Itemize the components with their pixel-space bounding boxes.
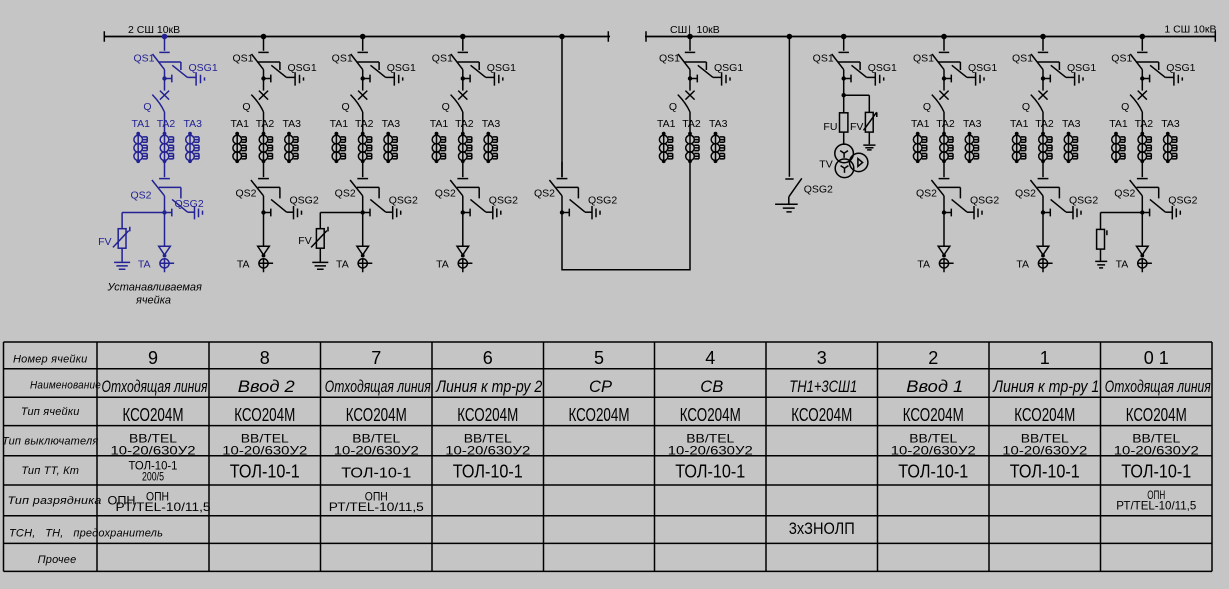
svg-text:QS2: QS2	[130, 190, 151, 202]
svg-text:Прочее: Прочее	[38, 554, 77, 566]
svg-text:3хЗНОЛП: 3хЗНОЛП	[789, 519, 855, 538]
svg-text:КСО204М: КСО204М	[1126, 405, 1187, 425]
wire QSG1 lead to earth	[867, 76, 876, 78]
svg-text:1 СШ 10кВ: 1 СШ 10кВ	[1164, 24, 1216, 36]
svg-text:2: 2	[928, 348, 938, 368]
bay 9 installed cell (blue)	[98, 34, 218, 273]
arrester FV arrow	[864, 112, 877, 130]
svg-text:РТ/TEL-10/11,5: РТ/TEL-10/11,5	[116, 500, 211, 514]
node FV branch dot	[842, 93, 846, 97]
bay 4 SV bus tie breaker	[657, 34, 743, 163]
svg-text:10-20/630У2: 10-20/630У2	[891, 444, 976, 458]
svg-text:КСО204М: КСО204М	[791, 405, 852, 425]
table vertical grid lines	[4, 342, 1213, 571]
svg-text:10-20/630У2: 10-20/630У2	[111, 444, 196, 458]
svg-text:10кВ: 10кВ	[697, 24, 720, 36]
svg-text:СВ: СВ	[700, 378, 723, 396]
svg-text:Отходящая линия: Отходящая линия	[1105, 378, 1211, 396]
bay 1 line to transformer 1	[1010, 34, 1098, 273]
disconnector QS1 fixed contact bar	[839, 51, 849, 53]
transformer TV winding circle 3	[850, 153, 868, 171]
svg-text:200/5: 200/5	[142, 470, 164, 484]
svg-text:0 1: 0 1	[1144, 348, 1169, 368]
bus 2SH 10kV	[104, 36, 610, 38]
svg-text:СШ: СШ	[670, 24, 687, 36]
svg-text:КСО204М: КСО204М	[457, 405, 518, 425]
wire bus to QS1	[843, 37, 845, 51]
bay 2 Vvod 1	[911, 34, 999, 273]
arrester FV branch of bay 9	[113, 213, 165, 270]
svg-text:10-20/630У2: 10-20/630У2	[222, 444, 307, 458]
winding TV delta mark	[858, 159, 863, 167]
svg-text:Ввод 1: Ввод 1	[906, 378, 963, 396]
svg-text:ТСН, ТН, предохранитель: ТСН, ТН, предохранитель	[9, 528, 163, 540]
svg-text:TV: TV	[819, 158, 832, 170]
earthing switch QSG2 of bus 1SH (cell 3)	[775, 34, 833, 212]
wire SR loop to SV bay	[562, 162, 690, 270]
svg-text:ТН1+3СШ1: ТН1+3СШ1	[789, 378, 857, 396]
arrester FV body	[865, 112, 873, 132]
svg-text:Отходящая линия: Отходящая линия	[102, 378, 208, 396]
ground earth symbol	[775, 204, 798, 212]
svg-text:Тип ячейки: Тип ячейки	[21, 406, 80, 418]
svg-text:2 СШ 10кВ: 2 СШ 10кВ	[128, 24, 180, 36]
arrester FV branch of bay 7	[311, 213, 363, 270]
winding TV star mark 1	[840, 151, 848, 158]
wire QS1 down to FU	[843, 70, 845, 113]
svg-text:Линия к тр-ру 2: Линия к тр-ру 2	[435, 378, 542, 396]
svg-text:Тип выключателя: Тип выключателя	[2, 436, 98, 448]
svg-text:КСО204М: КСО204М	[123, 405, 184, 425]
svg-text:ТОЛ-10-1: ТОЛ-10-1	[898, 462, 968, 482]
node junction dot below QS1	[842, 76, 846, 80]
wire junction tick with contact bar	[844, 75, 851, 83]
svg-text:Тип ТТ, Кт: Тип ТТ, Кт	[21, 465, 79, 477]
svg-text:8: 8	[260, 348, 270, 368]
earthing switch QSG1 tap wire	[838, 62, 860, 70]
wire bus 2SH end ticks	[104, 31, 608, 41]
winding TV star mark 2	[841, 166, 849, 173]
svg-text:9: 9	[148, 348, 158, 368]
svg-text:Тип разрядника: Тип разрядника	[8, 495, 102, 507]
svg-text:Линия к тр-ру 1: Линия к тр-ру 1	[992, 378, 1099, 396]
arrester branch of bay 01	[1095, 213, 1142, 268]
earthing switch QSG1 blade	[852, 65, 867, 77]
svg-text:10-20/630У2: 10-20/630У2	[1002, 444, 1087, 458]
svg-text:ТОЛ-10-1: ТОЛ-10-1	[1010, 462, 1080, 482]
svg-text:4: 4	[705, 348, 715, 368]
svg-text:FV: FV	[298, 235, 311, 247]
svg-text:Отходящая линия: Отходящая линия	[325, 378, 431, 396]
svg-text:7: 7	[371, 348, 381, 368]
bay 8 Vvod 2	[230, 34, 318, 273]
ground QSG1 earth bars	[875, 72, 883, 85]
wire tap to FV	[844, 95, 870, 112]
svg-text:FV: FV	[850, 121, 863, 133]
svg-text:QSG2: QSG2	[175, 198, 204, 210]
svg-text:КСО204М: КСО204М	[234, 405, 295, 425]
bay 7 outgoing line with FV	[298, 34, 418, 273]
bay 3 TN1+3SSh1 voltage transformer cell	[813, 34, 897, 178]
svg-text:КСО204М: КСО204М	[346, 405, 407, 425]
svg-text:6: 6	[483, 348, 493, 368]
earthing switch fixed contact bar	[785, 178, 793, 180]
node bus tap dot	[787, 34, 793, 40]
svg-text:10-20/630У2: 10-20/630У2	[445, 444, 530, 458]
svg-text:Наименование: Наименование	[30, 380, 101, 392]
svg-text:10-20/630У2: 10-20/630У2	[668, 444, 753, 458]
svg-text:ТОЛ-10-1: ТОЛ-10-1	[230, 462, 300, 482]
svg-text:Устанавливаемая: Устанавливаемая	[106, 281, 202, 293]
wire FU to TV	[843, 132, 845, 145]
svg-text:FV: FV	[98, 236, 111, 248]
svg-text:QSG2: QSG2	[804, 183, 833, 195]
svg-text:QSG1: QSG1	[868, 62, 897, 74]
wire FV to ground	[868, 132, 870, 144]
earthing switch blade	[789, 178, 802, 197]
wire blade to ground	[788, 197, 790, 204]
svg-text:ТОЛ-10-1: ТОЛ-10-1	[453, 462, 523, 482]
svg-text:ТОЛ-10-1: ТОЛ-10-1	[675, 462, 745, 482]
svg-text:Номер ячейки: Номер ячейки	[13, 354, 87, 366]
svg-text:ТОЛ-10-1: ТОЛ-10-1	[341, 465, 411, 482]
disconnector QS1 blade	[832, 54, 844, 70]
svg-text:QS1: QS1	[813, 52, 834, 64]
svg-text:КСО204М: КСО204М	[1014, 405, 1075, 425]
svg-text:КСО204М: КСО204М	[569, 405, 630, 425]
svg-text:FU: FU	[823, 121, 837, 133]
bay 6 line to transformer 2	[430, 34, 518, 273]
svg-text:КСО204М: КСО204М	[903, 405, 964, 425]
svg-text:10-20/630У2: 10-20/630У2	[1114, 444, 1199, 458]
wire bus down to earthing switch	[788, 37, 790, 177]
node bus tap dot	[841, 34, 847, 40]
svg-text:3: 3	[817, 348, 827, 368]
svg-text:10-20/630У2: 10-20/630У2	[334, 444, 419, 458]
svg-text:РТ/TEL-10/11,5: РТ/TEL-10/11,5	[1116, 499, 1196, 513]
fuse FU body	[840, 113, 848, 132]
bay 5 SR sectionalizing disconnector	[534, 34, 690, 270]
svg-text:1: 1	[1040, 348, 1050, 368]
table horizontal grid lines	[4, 342, 1213, 571]
svg-text:Ввод 2: Ввод 2	[238, 378, 295, 396]
bay 01 outgoing line with arrester	[1095, 34, 1197, 273]
wire bus 1SH end ticks	[646, 31, 1215, 41]
bus 1SH 10kV	[645, 36, 1216, 38]
ground under FV	[863, 145, 875, 150]
svg-text:ячейка: ячейка	[135, 294, 171, 306]
svg-text:РТ/TEL-10/11,5: РТ/TEL-10/11,5	[329, 500, 424, 514]
svg-text:ТОЛ-10-1: ТОЛ-10-1	[1121, 462, 1191, 482]
transformer TV winding circle 1	[835, 144, 854, 163]
wire bus down to QS2	[561, 37, 563, 178]
svg-text:СР: СР	[589, 378, 612, 396]
node bus tap dot	[559, 34, 565, 40]
svg-text:КСО204М: КСО204М	[680, 405, 741, 425]
transformer TV winding circle 2	[835, 159, 854, 178]
svg-text:5: 5	[594, 348, 604, 368]
